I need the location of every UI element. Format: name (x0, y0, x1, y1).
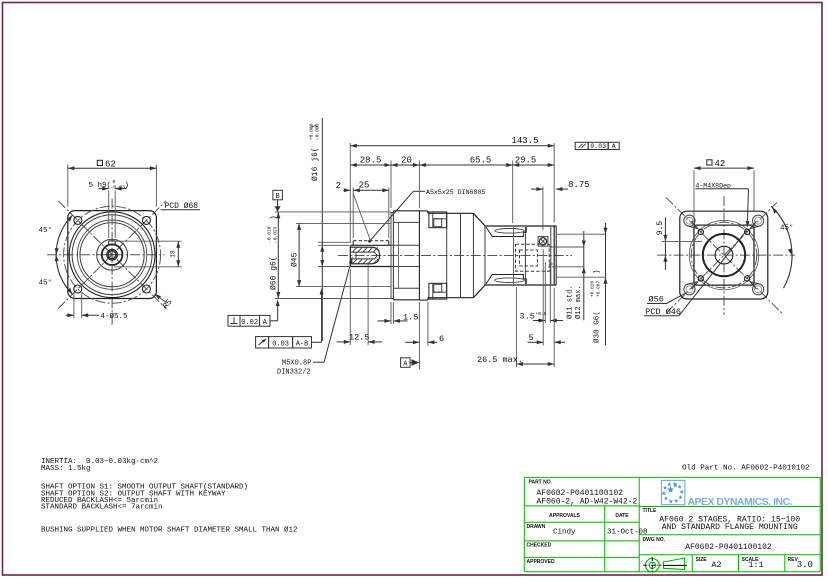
svg-text:12.5: 12.5 (349, 333, 369, 343)
svg-text:Ø16 j6(: Ø16 j6( (311, 147, 320, 181)
svg-text:4-M4X8Dep: 4-M4X8Dep (695, 182, 731, 189)
svg-text:28.5: 28.5 (360, 155, 382, 165)
svg-text:45°: 45° (39, 279, 53, 288)
svg-text:AF060-2, AD-W42-W42-2: AF060-2, AD-W42-W42-2 (537, 498, 638, 507)
svg-text:-0.029: -0.029 (273, 226, 279, 243)
svg-text:65.5: 65.5 (470, 155, 492, 165)
svg-text:APEX DYNAMICS, INC.: APEX DYNAMICS, INC. (688, 497, 793, 508)
svg-text:-0.03: -0.03 (111, 184, 126, 190)
svg-text:42: 42 (715, 159, 726, 169)
svg-text:0.03: 0.03 (272, 340, 289, 348)
svg-text:DRAWN: DRAWN (527, 524, 546, 530)
svg-text:5 h9(: 5 h9( (89, 182, 112, 190)
svg-text:Ø60 g6(: Ø60 g6( (270, 256, 279, 290)
svg-text:AF0602-P0401100102: AF0602-P0401100102 (685, 543, 772, 552)
svg-text:Ø11 std.: Ø11 std. (566, 285, 575, 319)
svg-text:STANDARD BACKLASH<= 7arcmin: STANDARD BACKLASH<= 7arcmin (41, 504, 163, 512)
svg-text:6: 6 (439, 334, 444, 344)
svg-text:1:1: 1:1 (748, 560, 763, 570)
svg-text:DIN332/2: DIN332/2 (277, 369, 311, 377)
svg-text:BUSHING SUPPLIED WHEN MOTOR SH: BUSHING SUPPLIED WHEN MOTOR SHAFT DIAMET… (41, 526, 298, 535)
svg-text:A5x5x25 DIN6885: A5x5x25 DIN6885 (426, 189, 485, 196)
svg-text:MASS: 1.5kg: MASS: 1.5kg (41, 465, 91, 473)
svg-text:): ) (270, 215, 279, 220)
svg-text:0: 0 (113, 179, 116, 185)
svg-text:SIZE: SIZE (696, 557, 708, 563)
svg-text:+0.020: +0.020 (590, 280, 596, 297)
svg-text:3.0: 3.0 (797, 560, 813, 570)
svg-text:M5X0.8P: M5X0.8P (282, 359, 311, 367)
svg-text:-0.010: -0.010 (267, 226, 273, 243)
svg-text:18: 18 (170, 250, 177, 258)
svg-text:DATE: DATE (615, 513, 629, 519)
svg-text:Ø12 max.: Ø12 max. (574, 285, 583, 319)
svg-text:45°: 45° (39, 226, 53, 235)
svg-text:Cindy: Cindy (553, 529, 576, 537)
svg-text:29.5: 29.5 (515, 155, 537, 165)
svg-text:9.5: 9.5 (656, 221, 665, 236)
svg-text:45°: 45° (780, 224, 794, 233)
svg-text:Ø30 G6(: Ø30 G6( (592, 311, 601, 343)
svg-text:CHECKED: CHECKED (527, 543, 552, 549)
svg-text:Old Part No. AF0602-P4010102: Old Part No. AF0602-P4010102 (682, 465, 810, 473)
svg-text:Ø45: Ø45 (290, 252, 299, 267)
svg-text:APPROVALS: APPROVALS (549, 513, 580, 519)
svg-text:31-Oct-08: 31-Oct-08 (607, 529, 648, 537)
svg-text:0.02: 0.02 (241, 319, 258, 327)
svg-text:1.5: 1.5 (403, 312, 418, 322)
svg-text:): ) (125, 182, 130, 190)
svg-text:8.75: 8.75 (568, 180, 590, 190)
svg-text:20: 20 (401, 155, 412, 165)
svg-text:DWG NO.: DWG NO. (643, 537, 666, 543)
svg-text:143.5: 143.5 (511, 136, 538, 146)
svg-text:2: 2 (336, 181, 341, 191)
svg-text:+0.007: +0.007 (596, 280, 602, 297)
svg-text:5: 5 (528, 333, 533, 343)
svg-text:A2: A2 (711, 560, 721, 570)
svg-text:B: B (275, 193, 279, 201)
svg-text:+0.5: +0.5 (536, 311, 547, 317)
svg-text:APPROVED: APPROVED (527, 559, 555, 565)
svg-text:26.5 max.: 26.5 max. (477, 355, 523, 365)
svg-text:): ) (311, 124, 320, 129)
svg-text:62: 62 (105, 159, 116, 169)
svg-text:AND STANDARD FLANGE MOUNTING: AND STANDARD FLANGE MOUNTING (662, 523, 798, 532)
svg-text:25: 25 (359, 181, 370, 191)
svg-text:0.03: 0.03 (590, 143, 606, 150)
svg-text:0: 0 (538, 318, 541, 324)
svg-text:PART NO.: PART NO. (529, 480, 553, 486)
svg-text:): ) (593, 269, 601, 274)
svg-text:3.5: 3.5 (520, 311, 535, 321)
svg-text:4-Ø5.5: 4-Ø5.5 (101, 312, 129, 321)
svg-text:A-B: A-B (296, 340, 309, 348)
svg-text:A: A (612, 143, 616, 150)
svg-text:TITLE: TITLE (643, 508, 658, 514)
